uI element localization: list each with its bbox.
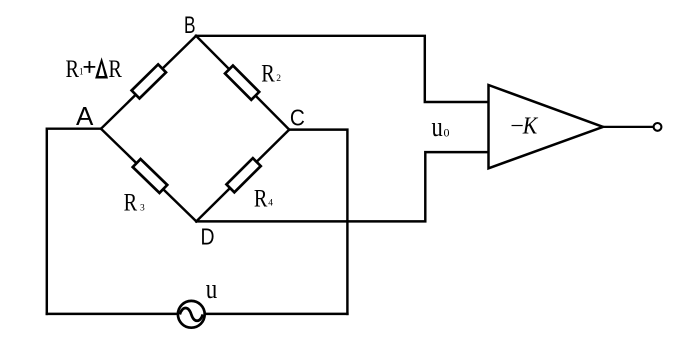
bridge arm A-B	[101, 36, 196, 129]
svg-text:−: −	[510, 114, 524, 140]
wire C down to bottom rail	[289, 130, 347, 314]
svg-text:K: K	[522, 114, 539, 140]
svg-text:R: R	[108, 56, 122, 83]
resistor R3	[133, 159, 168, 193]
label delta (drawn)	[95, 57, 108, 78]
bridge arm C-D	[196, 130, 289, 222]
bridge arm B-C	[196, 36, 289, 130]
svg-text:R: R	[261, 61, 275, 88]
svg-text:1: 1	[79, 67, 84, 77]
svg-text:3: 3	[140, 204, 145, 214]
wire bottom rail right of source	[205, 313, 347, 315]
svg-text:C: C	[290, 105, 305, 131]
svg-text:u: u	[432, 112, 443, 143]
svg-text:R: R	[66, 56, 80, 83]
svg-text:D: D	[201, 224, 215, 250]
svg-text:R: R	[124, 189, 138, 216]
svg-text:2: 2	[276, 74, 281, 84]
svg-text:B: B	[184, 12, 196, 39]
wire D to op-amp lower input	[196, 152, 488, 221]
resistor R1	[132, 64, 166, 98]
op-amp output wire	[603, 126, 653, 128]
svg-text:u: u	[206, 274, 218, 305]
resistor R4	[226, 158, 260, 192]
wire B to op-amp upper input	[196, 36, 489, 102]
source u (AC)	[178, 301, 205, 328]
output terminal circle	[654, 123, 662, 131]
label plus sign (drawn)	[84, 61, 96, 73]
svg-text:4: 4	[268, 199, 273, 209]
wire bottom rail left of source	[47, 313, 178, 315]
bridge arm A-D	[101, 129, 196, 222]
svg-text:R: R	[254, 185, 268, 212]
resistor R2	[225, 66, 259, 100]
svg-text:0: 0	[444, 126, 450, 140]
wire A down to bottom rail	[47, 129, 101, 314]
op-amp -K triangle	[489, 85, 662, 168]
svg-text:A: A	[76, 101, 94, 131]
